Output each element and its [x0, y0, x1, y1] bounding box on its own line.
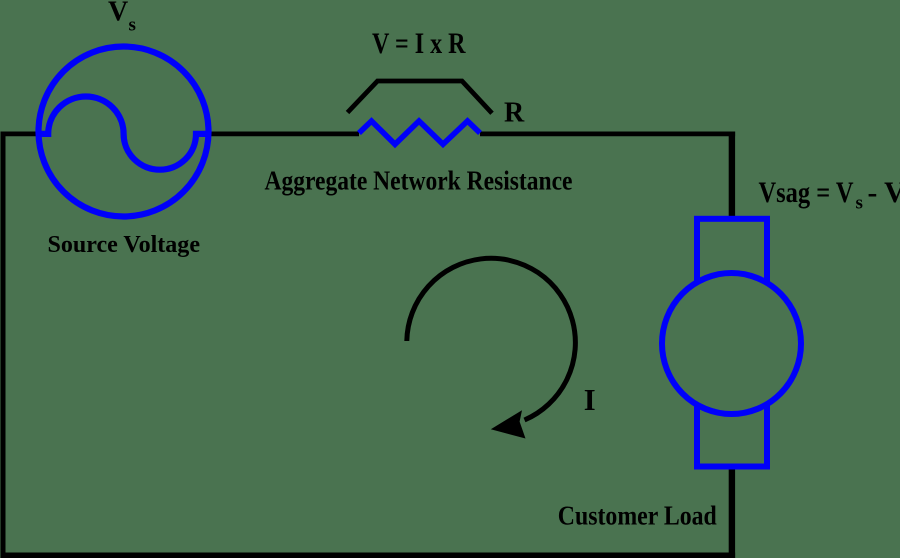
customer load: bottom rectangle	[697, 406, 767, 467]
wire: bottom horizontal	[1, 553, 736, 558]
svg-text:I: I	[584, 383, 596, 417]
resistor R: blue zigzag	[359, 121, 480, 144]
wire: top horizontal from AC source to resistor	[210, 131, 359, 136]
wire: left vertical	[1, 132, 6, 557]
AC source V_s: circle	[39, 47, 209, 217]
wire: right vertical upper segment (corner to load)	[729, 132, 735, 222]
AC source V_s: sine wave	[38, 96, 208, 169]
current loop arc	[407, 258, 576, 420]
current loop arrowhead	[491, 410, 526, 438]
customer load: circle	[662, 273, 801, 414]
svg-text:R: R	[504, 98, 525, 129]
bracket (overbrace) above resistor	[348, 81, 493, 113]
svg-text:Source Voltage: Source Voltage	[48, 232, 201, 258]
customer load: background erase circle	[665, 276, 798, 411]
svg-text:Aggregate Network Resistance: Aggregate Network Resistance	[265, 166, 573, 196]
svg-text:V: V	[108, 0, 128, 28]
svg-text:s: s	[856, 193, 863, 214]
customer load: top rectangle	[697, 219, 767, 281]
svg-text:s: s	[129, 15, 136, 36]
svg-text:Customer Load: Customer Load	[558, 500, 717, 531]
wire: right vertical lower segment (load to bottom corner)	[729, 466, 735, 558]
svg-text:V = I x R: V = I x R	[372, 27, 466, 60]
wire: top horizontal from resistor to top-right corner	[480, 131, 735, 136]
wire: top-left horizontal from left wire to AC source	[1, 131, 39, 136]
svg-text:- V: - V	[868, 177, 900, 209]
svg-text:Vsag = V: Vsag = V	[759, 177, 854, 209]
